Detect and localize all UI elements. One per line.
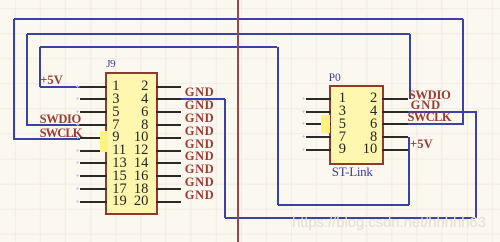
net label SWDIO at P0 pin 2 — [409, 89, 451, 102]
P0 pin 9 tip marker — [302, 148, 305, 151]
wire GND: right vertical — [475, 112, 477, 219]
J9 pin number 19 — [112, 194, 127, 209]
J9 pin 11 stub — [80, 150, 107, 152]
P0 pin number 6 — [349, 117, 377, 132]
P0 pin number 1 — [339, 91, 346, 106]
J9 pin 11 tip marker — [76, 149, 79, 152]
wire SWDIO: horizontal at J9 pin 7 — [27, 124, 81, 126]
designator P0 — [329, 73, 341, 84]
J9 pin number 18 — [120, 182, 148, 197]
wire SWCLK: right vertical — [462, 19, 464, 124]
J9 pin 19 stub — [80, 201, 107, 203]
P0 pin 3 tip marker — [302, 110, 305, 113]
J9 pin number 6 — [120, 105, 148, 120]
J9 pin 5 tip marker — [76, 110, 79, 113]
J9 pin 9 tip marker — [76, 136, 79, 139]
J9 pin number 9 — [112, 130, 119, 145]
wire SWCLK: top horizontal — [14, 18, 463, 20]
wire GND: horizontal at P0 pin 4 — [407, 111, 477, 113]
J9 pin 6 stub — [156, 111, 181, 113]
net label GND at J9 pin 6 — [185, 112, 214, 125]
wire +5V: horizontal at J9 pin 1 — [40, 86, 81, 88]
P0 pin 9 stub — [306, 149, 332, 151]
J9 pin number 20 — [120, 194, 148, 209]
J9 pin 1 stub — [80, 86, 107, 88]
J9 pin 10 stub — [156, 137, 181, 139]
J9 pin 9 stub — [80, 137, 107, 139]
J9 pin number 14 — [120, 156, 148, 171]
P0 pin 2 stub — [382, 98, 408, 100]
P0 pin 4 stub — [382, 111, 408, 113]
P0 pin 1 tip marker — [302, 97, 305, 100]
connector J9 body — [105, 72, 159, 215]
J9 pin number 3 — [112, 92, 119, 107]
wire +5V: top horizontal — [40, 46, 278, 48]
net label SWCLK at P0 pin 6 — [408, 111, 452, 124]
net label SWCLK at J9 pin 9 — [40, 127, 82, 140]
net label GND at J9 pin 14 — [185, 163, 214, 176]
wire SWCLK: horizontal at P0 pin 6 — [407, 123, 464, 125]
wire SWCLK: horizontal at J9 pin 9 — [14, 138, 81, 140]
wire SWDIO: left vertical — [26, 34, 28, 126]
J9 pin 15 tip marker — [76, 174, 79, 177]
P0 pin number 2 — [349, 91, 377, 106]
P0 pin number 5 — [339, 117, 346, 132]
net label GND at P0 pin 4 — [411, 99, 441, 112]
J9 pin number 8 — [120, 118, 148, 133]
wire SWCLK: left vertical — [13, 19, 15, 140]
wire +5V: middle vertical — [277, 47, 279, 205]
net label GND at J9 pin 8 — [185, 125, 214, 138]
label ST-Link — [332, 166, 373, 177]
J9 pin 16 stub — [156, 175, 181, 177]
designator J9 — [106, 59, 115, 70]
connector P0 body — [329, 85, 384, 164]
P0 pin number 4 — [349, 104, 377, 119]
P0 pin 7 tip marker — [302, 135, 305, 138]
wire +5V: bottom horizontal — [278, 204, 409, 206]
P0 pin number 10 — [349, 142, 377, 157]
J9 pin number 16 — [120, 169, 148, 184]
J9 pin number 5 — [112, 105, 119, 120]
J9 pin number 12 — [120, 143, 148, 158]
P0 pin 1 stub — [306, 98, 332, 100]
P0 pin 7 stub — [306, 136, 332, 138]
J9 pin number 2 — [120, 79, 148, 94]
J9 pin number 11 — [112, 143, 126, 158]
net label +5V at P0 pin 8 — [410, 138, 433, 151]
J9 pin 5 stub — [80, 111, 107, 113]
J9 pin 14 stub — [156, 162, 181, 164]
J9 pin 4 stub — [156, 98, 181, 100]
J9 pin number 13 — [112, 156, 127, 171]
wire SWDIO: vertical to P0 pin 2 — [409, 34, 411, 99]
net label GND at J9 pin 18 — [185, 189, 214, 202]
net label SWDIO at J9 pin 7 — [40, 113, 81, 126]
J9 pin 12 stub — [156, 150, 181, 152]
J9 pin number 10 — [120, 130, 148, 145]
net label GND at J9 pin 16 — [185, 176, 214, 189]
J9 pin 8 stub — [156, 124, 181, 126]
red vertical net line — [237, 0, 239, 242]
J9 highlight tab over pins 9-11 — [100, 131, 108, 152]
J9 pin 7 tip marker — [76, 123, 79, 126]
J9 pin 20 stub — [156, 201, 181, 203]
P0 highlight tab over pins 3-5 — [321, 115, 330, 133]
net label GND at J9 pin 10 — [185, 138, 214, 151]
net label +5V at J9 pin 1 — [40, 74, 63, 87]
net label GND at J9 pin 4 — [185, 99, 214, 112]
J9 pin 3 tip marker — [76, 97, 79, 100]
wire GND: bottom horizontal — [225, 217, 475, 219]
J9 pin 17 stub — [80, 188, 107, 190]
J9 pin 7 stub — [80, 124, 107, 126]
J9 pin number 17 — [112, 182, 127, 197]
J9 pin 1 tip marker — [76, 85, 79, 88]
P0 pin 5 tip marker — [302, 122, 305, 125]
wire GND: middle vertical — [224, 99, 226, 218]
net label GND at J9 pin 2 — [185, 86, 214, 99]
J9 pin 19 tip marker — [76, 200, 79, 203]
P0 pin number 3 — [339, 104, 346, 119]
J9 pin 3 stub — [80, 98, 107, 100]
J9 pin number 1 — [112, 79, 119, 94]
J9 pin 13 stub — [80, 162, 107, 164]
P0 pin 5 stub — [306, 123, 332, 125]
P0 pin 6 stub — [382, 123, 408, 125]
P0 pin 8 stub — [382, 136, 408, 138]
J9 pin number 4 — [120, 92, 148, 107]
J9 pin 13 tip marker — [76, 161, 79, 164]
wire +5V: left vertical — [39, 47, 41, 88]
J9 pin number 15 — [112, 169, 127, 184]
J9 pin 2 stub — [156, 86, 181, 88]
P0 pin 3 stub — [306, 111, 332, 113]
P0 pin number 9 — [339, 142, 346, 157]
J9 pin 17 tip marker — [76, 187, 79, 190]
wire SWDIO: top horizontal — [27, 33, 410, 35]
P0 pin number 8 — [349, 130, 377, 145]
P0 pin 10 stub — [382, 149, 408, 151]
P0 pin number 7 — [339, 130, 346, 145]
watermark text — [292, 215, 486, 230]
wire +5V: vertical to P0 pin 8 — [408, 137, 410, 205]
wire GND: horizontal at J9 pin 4 — [180, 98, 226, 100]
J9 pin 18 stub — [156, 188, 181, 190]
J9 pin number 7 — [112, 118, 119, 133]
J9 pin 15 stub — [80, 175, 107, 177]
net label GND at J9 pin 12 — [185, 150, 214, 163]
